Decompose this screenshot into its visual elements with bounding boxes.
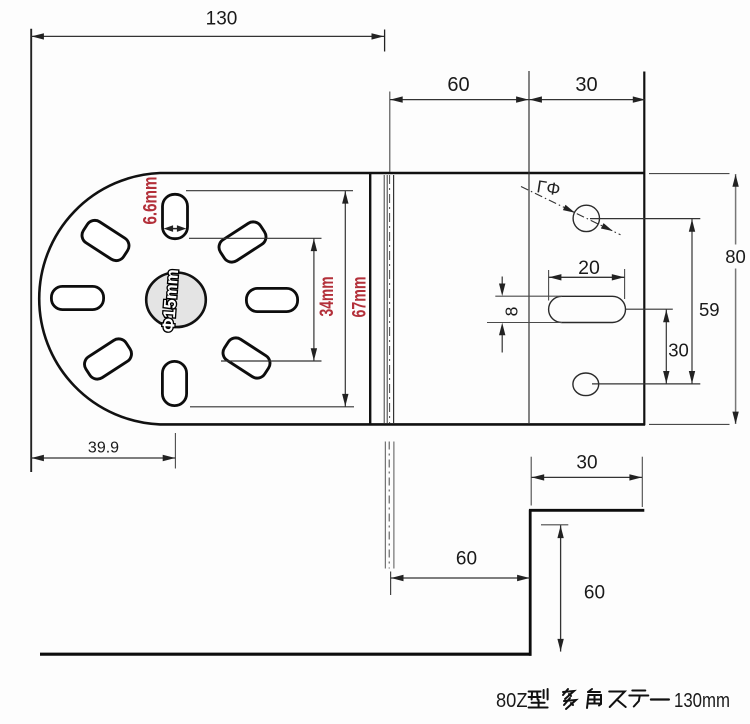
svg-text:80Z: 80Z (496, 690, 528, 712)
svg-text:59: 59 (699, 299, 720, 320)
svg-text:30: 30 (668, 340, 689, 361)
svg-text:30: 30 (576, 453, 597, 474)
svg-text:ΓΦ: ΓΦ (535, 176, 561, 199)
svg-text:60: 60 (447, 74, 469, 96)
svg-text:130mm: 130mm (674, 690, 730, 712)
svg-text:20: 20 (578, 257, 600, 279)
svg-text:67mm: 67mm (350, 277, 371, 318)
svg-text:60: 60 (584, 583, 605, 604)
svg-text:60: 60 (456, 549, 477, 570)
svg-text:80: 80 (725, 246, 746, 267)
svg-text:8: 8 (502, 307, 522, 317)
svg-text:34mm: 34mm (317, 277, 338, 317)
svg-text:39.9: 39.9 (88, 440, 119, 457)
svg-text:6.6mm: 6.6mm (141, 177, 162, 225)
svg-text:130: 130 (206, 9, 238, 30)
svg-text:30: 30 (575, 74, 597, 96)
